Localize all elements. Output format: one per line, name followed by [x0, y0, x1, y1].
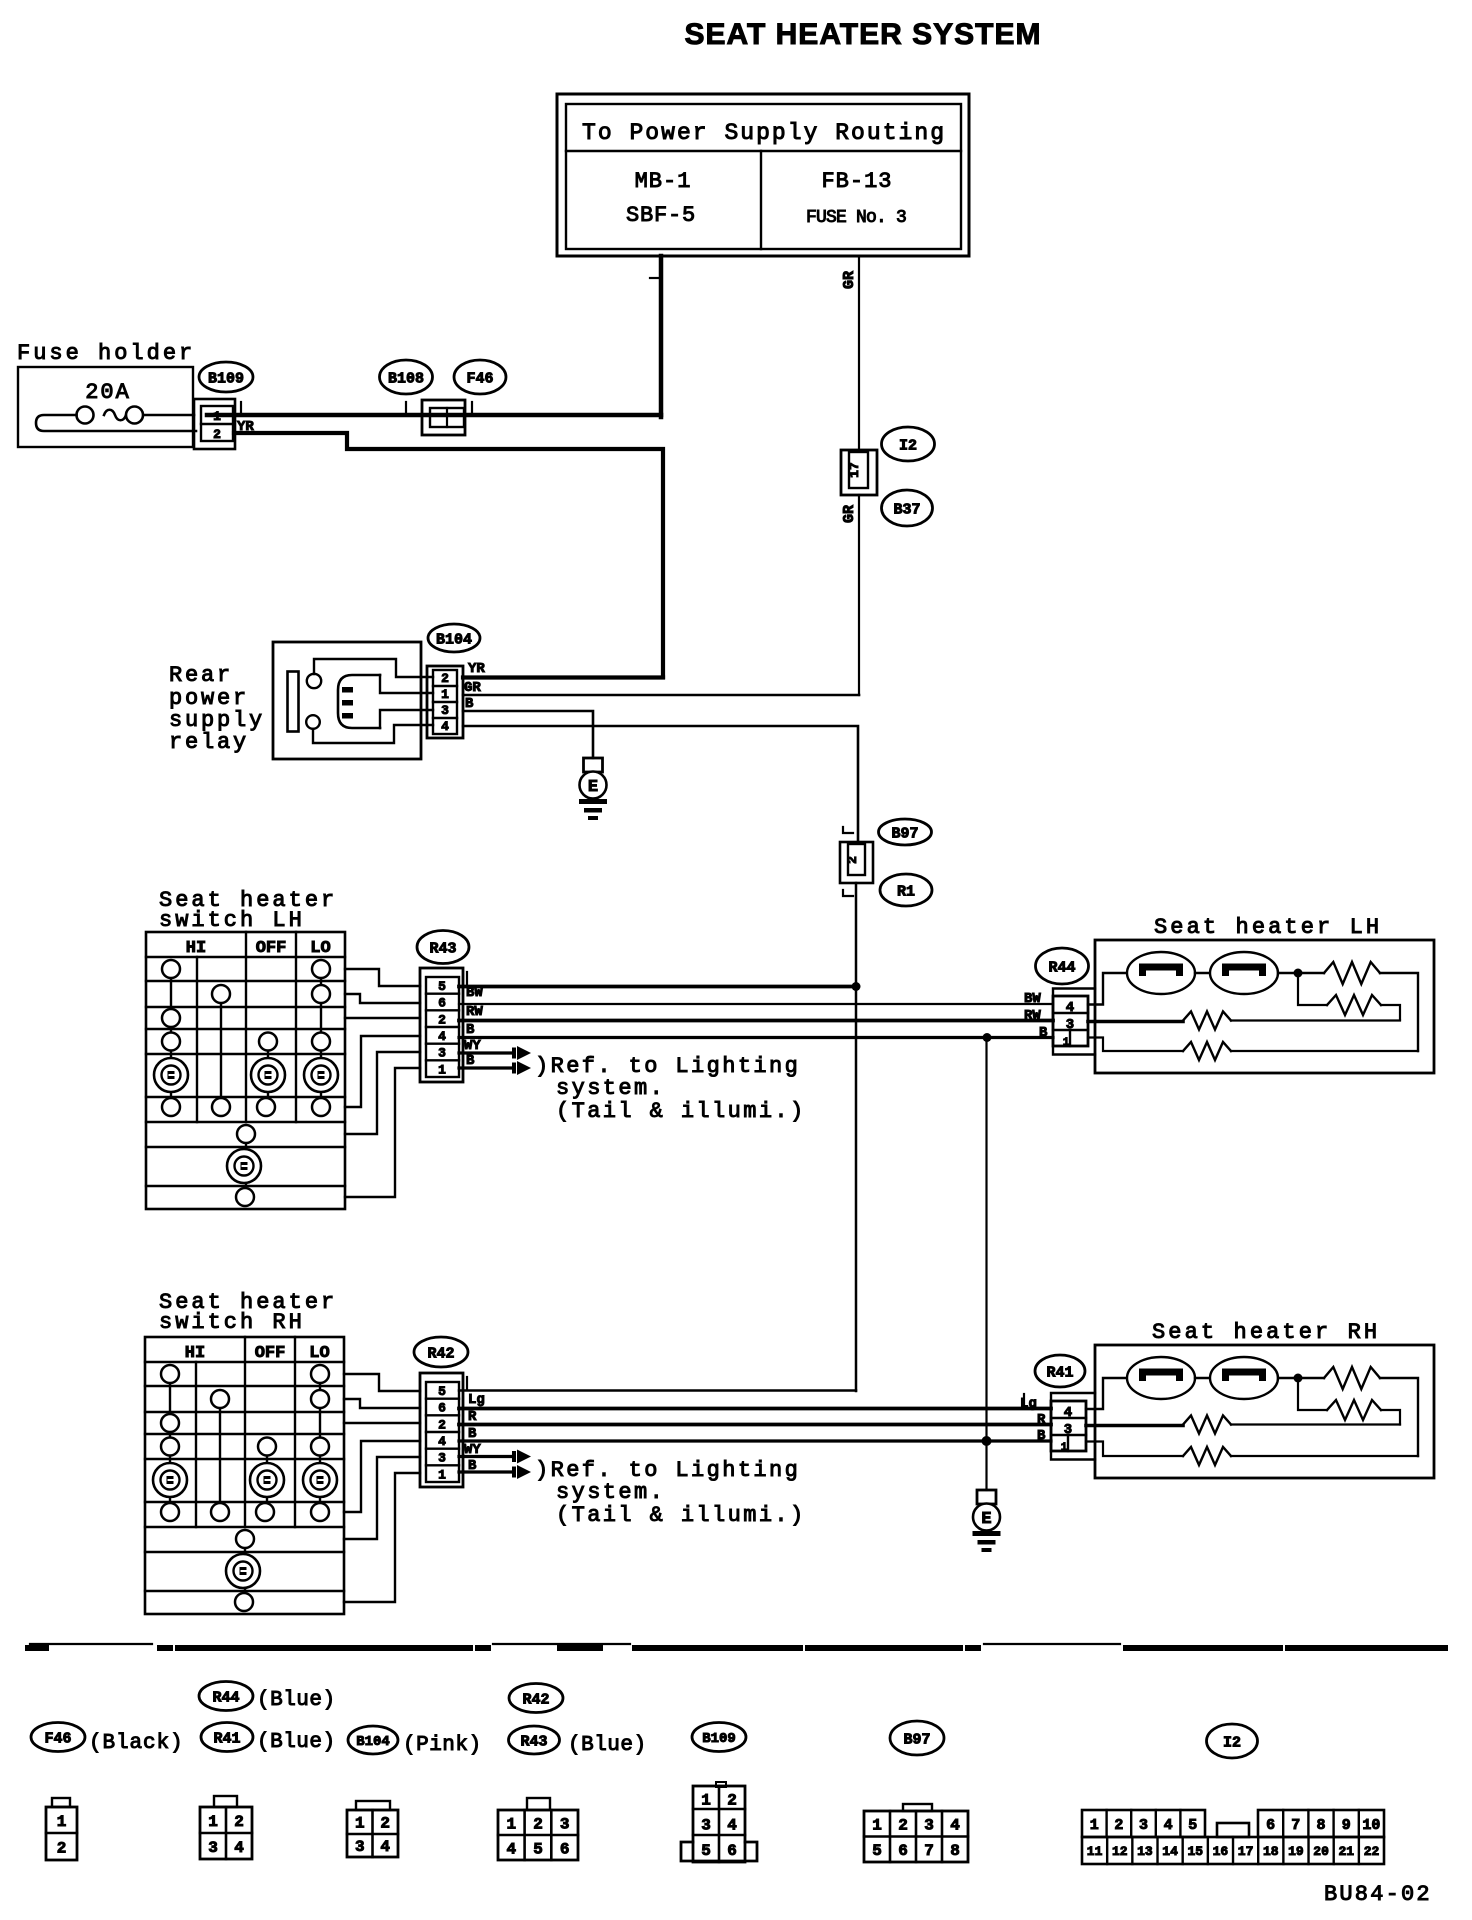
svg-text:Seat heater RH: Seat heater RH — [1152, 1320, 1380, 1345]
wire: switch LH row6 to R43 pin4 — [345, 1036, 420, 1107]
heater element R top (LH) — [1324, 962, 1380, 984]
seat heater switch box (LH) — [146, 932, 345, 1209]
switch contacts row1 — [162, 960, 180, 978]
wire: feed corner into R42 pin5 — [459, 1389, 856, 1392]
svg-text:BW: BW — [466, 985, 483, 1001]
svg-text:I2: I2 — [1223, 1734, 1241, 1751]
svg-text:2: 2 — [380, 1815, 390, 1833]
wire: B104 pin1 GR to FB-13 feed — [463, 694, 859, 697]
relay wire contact to pin3 — [380, 710, 433, 728]
connector R44 body pins 4,3,1 — [1053, 989, 1095, 1055]
svg-text:3: 3 — [208, 1839, 218, 1857]
svg-text:SEAT HEATER SYSTEM: SEAT HEATER SYSTEM — [685, 18, 1042, 51]
svg-text:4: 4 — [380, 1838, 390, 1856]
wire: switch RH row6 to R42 pin4 — [344, 1441, 420, 1512]
svg-text:(Tail & illumi.): (Tail & illumi.) — [556, 1503, 806, 1528]
svg-text:22: 22 — [1364, 1844, 1380, 1859]
svg-text:8: 8 — [950, 1842, 960, 1860]
switch contacts row6 — [162, 1098, 180, 1116]
wire: B104 pin2 YR to fuse vertical — [463, 675, 663, 679]
heater element 3 (RH) — [1183, 1416, 1231, 1434]
svg-text:9: 9 — [1342, 1817, 1351, 1834]
switch illumination lamp — [226, 1554, 260, 1588]
svg-text:21: 21 — [1338, 1844, 1354, 1859]
svg-text:3: 3 — [438, 1046, 446, 1061]
svg-text:6: 6 — [438, 996, 446, 1011]
heater element 4 (LH) — [1183, 1042, 1231, 1060]
wire: B104 pin4 to B97/R1 — [463, 726, 858, 842]
svg-text:2: 2 — [438, 1417, 446, 1432]
thermal protector 2 (RH) — [1210, 1357, 1278, 1399]
legend connector ref F46 — [31, 1723, 85, 1752]
wire Lg: R42 pin6 to R41 pin4 — [459, 1407, 1051, 1411]
arrow: R42 pin1 B to lighting system — [459, 1470, 514, 1473]
legend connector ref R42 — [509, 1684, 563, 1713]
connector ref R1 — [880, 874, 932, 906]
svg-text:5: 5 — [701, 1842, 711, 1860]
svg-text:B37: B37 — [893, 501, 920, 518]
switch indicator lamps — [153, 1463, 187, 1497]
relay coil terminal top — [307, 674, 321, 688]
switch column dividers — [195, 1362, 197, 1527]
connector B109 ref — [199, 362, 253, 392]
connector ref B108 — [380, 360, 433, 394]
connector R41 body pins 4,3,1 — [1051, 1393, 1095, 1460]
svg-text:(Blue): (Blue) — [257, 1689, 336, 1712]
svg-text:F46: F46 — [466, 370, 493, 387]
svg-text:17: 17 — [1238, 1844, 1254, 1859]
junction heater RH — [1294, 1374, 1303, 1383]
svg-text:F46: F46 — [44, 1730, 71, 1747]
svg-text:BU84-02: BU84-02 — [1324, 1882, 1432, 1907]
svg-text:1: 1 — [355, 1815, 365, 1833]
heater element 3 (LH) — [1183, 1012, 1231, 1030]
svg-text:BW: BW — [1024, 991, 1041, 1007]
svg-text:17: 17 — [847, 462, 862, 478]
svg-text:15: 15 — [1187, 1844, 1203, 1859]
svg-text:3: 3 — [1139, 1817, 1148, 1834]
connector body (R42) — [420, 1373, 463, 1487]
thermal protector 2 (LH) — [1210, 952, 1278, 994]
svg-text:LO: LO — [310, 939, 330, 958]
arrow: R43 pin1 B to lighting system — [459, 1066, 514, 1069]
wire: switch LH row9 to R43 pin1 — [345, 1068, 420, 1197]
svg-text:HI: HI — [186, 939, 206, 958]
wire: GR feed continues down to relay — [858, 495, 860, 695]
svg-text:4: 4 — [1066, 1000, 1074, 1016]
wire: switch LH row3 to R43 pin2 — [345, 1017, 420, 1019]
svg-text:10: 10 — [1362, 1817, 1380, 1834]
wire B: R42 pin4 to R41 pin1 — [459, 1439, 1051, 1442]
svg-text:R41: R41 — [213, 1730, 240, 1747]
relay wire contact to pin1 — [380, 675, 433, 693]
thermal protector 1 (LH) — [1127, 952, 1195, 994]
svg-text:6: 6 — [898, 1842, 908, 1860]
wire: RH ground drop to E — [985, 1441, 987, 1490]
wire: switch RH row3 to R42 pin2 — [344, 1422, 420, 1424]
wire BW: R43 pin6 to R44 pin4 — [459, 1003, 1053, 1005]
switch pole lines — [170, 969, 172, 1107]
switch contact row9 — [235, 1593, 253, 1611]
connector ref B97 — [879, 819, 932, 845]
svg-text:3: 3 — [701, 1817, 711, 1835]
wire: switch RH row2 to R42 pin6 — [344, 1399, 420, 1408]
svg-text:Seat heater LH: Seat heater LH — [1154, 915, 1382, 940]
relay wire coil-top to pin2 — [314, 659, 433, 677]
legend connector ref R44 — [199, 1682, 253, 1711]
switch contacts row6 — [161, 1503, 179, 1521]
switch contacts row4 — [162, 1033, 180, 1051]
relay wire coil-bottom to pin4 — [313, 725, 433, 743]
power supply routing box — [557, 94, 969, 256]
latch ticks B108/F46 — [405, 402, 407, 415]
branch to element 2 — [1298, 973, 1327, 1005]
svg-text:GR: GR — [841, 505, 858, 523]
svg-text:2: 2 — [234, 1813, 244, 1831]
svg-text:8: 8 — [1316, 1817, 1325, 1834]
svg-text:1: 1 — [701, 1791, 711, 1809]
heater LH wire pin1 bottom — [1088, 1038, 1183, 1052]
legend connector ref R41 — [201, 1723, 253, 1752]
svg-text:To Power Supply Routing: To Power Supply Routing — [582, 120, 944, 146]
fuse element F1 20A — [143, 414, 194, 417]
switch pole lines — [169, 1374, 171, 1512]
svg-text:(Tail & illumi.): (Tail & illumi.) — [556, 1099, 806, 1124]
svg-text:19: 19 — [1288, 1844, 1304, 1859]
latch tick R43 pin5 — [466, 972, 468, 985]
thermal protector 1 (RH) — [1127, 1357, 1195, 1399]
svg-text:RW: RW — [1024, 1008, 1041, 1024]
svg-text:LO: LO — [309, 1344, 329, 1363]
connector ref I2 — [882, 427, 935, 461]
svg-text:2: 2 — [213, 427, 221, 442]
svg-text:B104: B104 — [356, 1734, 390, 1750]
svg-text:2: 2 — [727, 1791, 737, 1809]
svg-text:Fuse holder: Fuse holder — [17, 341, 195, 366]
wire R: R42 pin2 to R41 pin3 — [459, 1423, 1051, 1427]
seat heater RH box — [1095, 1345, 1434, 1478]
arrow: R42 pin3 WY to lighting system — [459, 1455, 514, 1458]
svg-text:1: 1 — [208, 1813, 218, 1831]
svg-text:5: 5 — [533, 1840, 543, 1858]
svg-text:1: 1 — [1061, 1442, 1068, 1454]
fuse holder box — [18, 367, 193, 447]
svg-text:5: 5 — [1188, 1817, 1197, 1834]
svg-text:E: E — [588, 778, 598, 797]
svg-text:4: 4 — [1064, 1405, 1072, 1421]
svg-text:4: 4 — [506, 1840, 516, 1858]
svg-text:(Black): (Black) — [89, 1732, 184, 1755]
svg-text:1: 1 — [441, 687, 449, 702]
connector ref R44 — [1036, 948, 1089, 984]
svg-text:3: 3 — [355, 1838, 365, 1856]
legend I2 connector drawing (22-pin) — [1082, 1810, 1205, 1837]
heater element 2 (RH) — [1327, 1400, 1381, 1420]
svg-text:R41: R41 — [1046, 1364, 1073, 1381]
svg-text:R1: R1 — [897, 883, 915, 900]
svg-text:relay: relay — [169, 730, 249, 755]
relay coil — [288, 672, 299, 732]
svg-text:13: 13 — [1137, 1844, 1153, 1859]
svg-text:5: 5 — [438, 1384, 446, 1399]
legend F46 connector drawing (2-pin) — [52, 1798, 70, 1807]
svg-text:1: 1 — [438, 1467, 446, 1482]
separator line — [30, 1643, 152, 1645]
wire to heater elements — [1278, 972, 1324, 974]
svg-text:R43: R43 — [429, 940, 456, 957]
svg-text:1: 1 — [438, 1062, 446, 1077]
wire: feed down from R1 to seat heater switches — [855, 883, 858, 1391]
svg-text:system.: system. — [556, 1480, 665, 1505]
connector ref R42 — [414, 1337, 468, 1367]
legend connector ref B109 — [692, 1723, 746, 1752]
svg-text:3: 3 — [1064, 1422, 1072, 1438]
svg-text:4: 4 — [1164, 1817, 1173, 1834]
svg-text:(Pink): (Pink) — [403, 1734, 482, 1757]
connector ref R41 — [1035, 1355, 1085, 1387]
wire to heater elements (RH) — [1278, 1377, 1324, 1379]
legend connector ref I2 — [1207, 1724, 1258, 1758]
svg-text:3: 3 — [441, 703, 449, 718]
connector ref B37 — [882, 490, 933, 526]
switch indicator lamps — [154, 1058, 188, 1092]
relay box — [273, 642, 421, 759]
svg-text:3: 3 — [1066, 1017, 1074, 1033]
svg-text:7: 7 — [924, 1842, 934, 1860]
wire: switch LH row2 to R43 pin6 — [345, 994, 420, 1003]
wire: YR from B109 pin2 to relay — [234, 433, 663, 677]
wire: switch RH row9 to R42 pin1 — [344, 1473, 420, 1602]
svg-text:B109: B109 — [208, 370, 244, 387]
inline connector I2/B37 pin 17 — [841, 450, 877, 495]
svg-text:switch LH: switch LH — [159, 908, 305, 933]
heater RH wire pin1 bottom — [1086, 1442, 1183, 1457]
svg-text:4: 4 — [438, 1434, 446, 1449]
svg-text:3: 3 — [924, 1817, 934, 1835]
svg-text:E: E — [981, 1510, 991, 1529]
svg-text:6: 6 — [727, 1842, 737, 1860]
svg-text:1: 1 — [872, 1817, 882, 1835]
latch tick R41 — [1023, 1394, 1025, 1404]
svg-text:I2: I2 — [899, 437, 917, 454]
legend connector ref R43 — [509, 1726, 560, 1754]
svg-text:FUSE No. 3: FUSE No. 3 — [806, 208, 906, 228]
seat heater switch box (RH) — [145, 1337, 344, 1614]
connector ref R43 — [417, 931, 469, 964]
legend B104 connector drawing (4-pin) — [356, 1801, 390, 1810]
svg-text:MB-1: MB-1 — [635, 169, 692, 194]
junction heater LH — [1294, 969, 1303, 978]
svg-text:1: 1 — [1063, 1037, 1070, 1049]
switch illumination lamp — [227, 1149, 261, 1183]
svg-text:4: 4 — [727, 1817, 737, 1835]
svg-text:FB-13: FB-13 — [821, 169, 892, 194]
svg-text:B109: B109 — [702, 1731, 736, 1747]
heater element R top (RH) — [1324, 1367, 1380, 1389]
wire: switch RH row7 to R42 pin3 — [344, 1457, 420, 1539]
svg-text:HI: HI — [185, 1344, 205, 1363]
svg-text:18: 18 — [1263, 1844, 1279, 1859]
wire: B109 pin1 to MB-1 stub (through B108/F46) — [207, 413, 661, 418]
svg-text:3: 3 — [438, 1451, 446, 1466]
relay coil terminal bottom — [306, 715, 320, 729]
svg-text:B: B — [465, 696, 474, 712]
switch contacts row1 — [161, 1365, 179, 1383]
branch to element 2 (RH) — [1298, 1378, 1327, 1410]
svg-text:(Blue): (Blue) — [257, 1731, 336, 1754]
wire B: R43 pin4 to R44 pin1 — [459, 1036, 1053, 1039]
inline connector B97/R1 pin 2 — [840, 842, 873, 883]
wire: switch RH row1 to R42 pin5 — [344, 1374, 420, 1391]
wire: B104 pin3 B to ground — [463, 711, 593, 758]
svg-text:20: 20 — [1313, 1844, 1329, 1859]
svg-text:OFF: OFF — [255, 1344, 286, 1363]
switch column dividers — [196, 957, 198, 1122]
svg-text:B108: B108 — [388, 370, 424, 387]
latch tick B109 — [240, 402, 242, 414]
wire between protectors (RH) — [1195, 1377, 1210, 1379]
switch contacts row4 — [161, 1438, 179, 1456]
legend B109 connector drawing (6-pin) — [716, 1782, 726, 1787]
junction feed to switch LH — [852, 982, 861, 991]
heater RH wire pin4 entry — [1086, 1378, 1127, 1409]
svg-text:12: 12 — [1112, 1844, 1128, 1859]
svg-text:1: 1 — [1090, 1817, 1099, 1834]
junction B wire to ground drop — [983, 1033, 992, 1042]
svg-text:B: B — [466, 1022, 475, 1038]
switch contact row7 — [236, 1530, 254, 1548]
svg-text:2: 2 — [57, 1840, 67, 1858]
connector B104 body pins 2,1,3,4 — [427, 666, 463, 738]
legend R42/R43 connector drawing (6-pin) — [527, 1798, 550, 1810]
heater element 4 (RH) — [1183, 1447, 1231, 1465]
legend B97 connector drawing (8-pin) — [903, 1804, 932, 1811]
svg-text:6: 6 — [560, 1840, 570, 1858]
seat heater LH box — [1095, 940, 1434, 1073]
wire: switch LH row7 to R43 pin3 — [345, 1052, 420, 1134]
svg-text:GR: GR — [464, 680, 481, 696]
switch contacts row2 — [212, 985, 230, 1003]
svg-text:4: 4 — [438, 1029, 446, 1044]
svg-text:5: 5 — [438, 979, 446, 994]
svg-text:B97: B97 — [891, 825, 918, 842]
wire: FB-13 GR feed down — [858, 256, 860, 450]
wire: switch LH row1 to R43 pin5 — [345, 969, 420, 986]
svg-text:R44: R44 — [1048, 959, 1075, 976]
svg-text:system.: system. — [556, 1076, 665, 1101]
svg-text:R43: R43 — [520, 1733, 547, 1750]
switch contact row3 — [162, 1009, 180, 1027]
connector body (R43) — [420, 968, 463, 1082]
junction B wire RH to ground — [982, 1436, 992, 1446]
wire RW: R43 pin2 to R44 pin3 — [459, 1019, 1053, 1023]
svg-text:Rear: Rear — [169, 663, 233, 688]
svg-text:4: 4 — [441, 719, 449, 734]
svg-text:switch RH: switch RH — [159, 1310, 305, 1335]
inline connector B108/F46 body — [422, 400, 465, 435]
svg-text:2: 2 — [898, 1817, 908, 1835]
latch tick R42 pin5 — [466, 1377, 468, 1390]
svg-text:YR: YR — [468, 661, 485, 677]
svg-text:4: 4 — [234, 1839, 244, 1857]
wire: R43 pin5 feed to junction — [459, 985, 856, 989]
svg-text:3: 3 — [560, 1815, 570, 1833]
svg-text:11: 11 — [1087, 1844, 1103, 1859]
svg-text:5: 5 — [872, 1842, 882, 1860]
switch contacts row2 — [211, 1390, 229, 1408]
svg-text:R44: R44 — [212, 1689, 239, 1706]
legend connector ref B104 — [348, 1726, 398, 1754]
svg-text:SBF-5: SBF-5 — [626, 203, 696, 228]
svg-text:OFF: OFF — [256, 939, 287, 958]
heater RH wire pin3 middle — [1086, 1424, 1183, 1428]
svg-text:R42: R42 — [522, 1691, 549, 1708]
wire between protectors — [1195, 972, 1210, 974]
svg-text:RW: RW — [466, 1004, 483, 1020]
svg-text:B97: B97 — [903, 1731, 930, 1748]
svg-text:14: 14 — [1162, 1844, 1178, 1859]
svg-text:Lg: Lg — [1020, 1396, 1037, 1412]
svg-text:2: 2 — [533, 1815, 543, 1833]
svg-text:2: 2 — [1114, 1817, 1123, 1834]
latch marks B97/R1 — [843, 827, 853, 833]
ground E (seat heaters) — [977, 1490, 996, 1504]
legend R44/R41 connector drawing (4-pin) — [214, 1796, 237, 1807]
svg-text:GR: GR — [841, 271, 858, 289]
heater LH wire pin3 middle — [1088, 1020, 1183, 1024]
svg-text:B: B — [1039, 1025, 1048, 1041]
switch contact row3 — [161, 1414, 179, 1432]
wire: ground drop from LH B wire to RH — [985, 1038, 987, 1442]
arrow: R43 pin3 WY to lighting system — [459, 1051, 514, 1054]
wire: MB-1 output stub — [659, 256, 664, 417]
connector ref B104 — [428, 624, 480, 652]
svg-text:1: 1 — [57, 1813, 67, 1831]
heater element 2 (LH) — [1327, 995, 1381, 1015]
svg-text:2: 2 — [845, 856, 860, 864]
svg-text:B: B — [1037, 1428, 1046, 1444]
svg-text:20A: 20A — [85, 380, 131, 405]
svg-text:2: 2 — [438, 1012, 446, 1027]
svg-text:(Blue): (Blue) — [568, 1734, 647, 1757]
legend connector ref B97 — [890, 1721, 944, 1755]
svg-text:Lg: Lg — [468, 1392, 485, 1408]
switch contact row7 — [237, 1125, 255, 1143]
svg-text:6: 6 — [438, 1401, 446, 1416]
svg-text:1: 1 — [506, 1815, 516, 1833]
ground E (relay) — [584, 758, 603, 772]
svg-text:R: R — [1037, 1412, 1046, 1428]
svg-text:2: 2 — [441, 671, 449, 686]
svg-text:7: 7 — [1291, 1817, 1300, 1834]
relay contact housing — [338, 675, 380, 728]
svg-text:4: 4 — [950, 1817, 960, 1835]
connector ref F46 — [454, 360, 506, 394]
connector B109 body pins 1,2 — [194, 399, 235, 449]
svg-text:B104: B104 — [436, 631, 472, 648]
svg-text:6: 6 — [1266, 1817, 1275, 1834]
svg-text:16: 16 — [1213, 1844, 1229, 1859]
svg-text:R42: R42 — [427, 1345, 454, 1362]
heater LH wire pin4 entry — [1088, 973, 1127, 1005]
switch contact row9 — [236, 1188, 254, 1206]
